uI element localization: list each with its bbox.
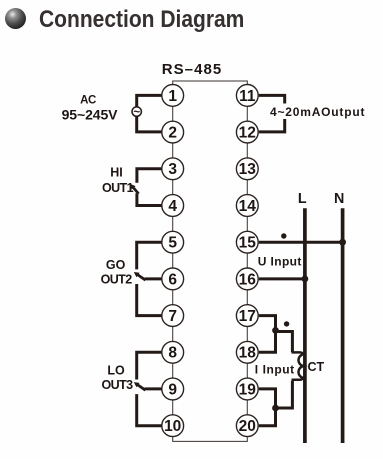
svg-text:11: 11 (239, 88, 256, 105)
wire: relay OUT3 terminal 9 common with blade (145, 387, 162, 390)
wire: relay OUT1 terminal 3 fixed contact (137, 169, 162, 183)
svg-text:6: 6 (168, 271, 177, 288)
terminal 14 (236, 195, 258, 217)
svg-text:N: N (334, 191, 344, 207)
svg-text:LO: LO (107, 363, 125, 377)
white backing for 4~20mAOutput label (269, 104, 368, 120)
svg-text:RS–485: RS–485 (162, 61, 223, 78)
terminal 18 (236, 341, 258, 363)
relay OUT3 blade (136, 384, 146, 391)
junction dot 19/20 (272, 405, 279, 412)
terminal 16 (236, 268, 258, 290)
terminal numbers 1-20 (164, 88, 256, 435)
junction dot 17/18 (272, 327, 279, 334)
terminal 4 (162, 195, 184, 217)
svg-text:OUT2: OUT2 (101, 273, 133, 287)
svg-text:L: L (298, 191, 307, 207)
svg-text:CT: CT (308, 360, 325, 374)
terminal strip outline (thin rail loop) (173, 81, 248, 441)
terminal 2 (162, 121, 184, 143)
relay OUT3 blade arrowhead (134, 382, 140, 387)
terminal 19 (236, 378, 258, 400)
CT winding symbol on L line (292, 352, 304, 379)
terminal 17 (236, 305, 258, 327)
svg-text:12: 12 (239, 125, 256, 142)
svg-text:19: 19 (239, 381, 257, 398)
relay OUT2 blade arrowhead (134, 272, 140, 277)
junction dot on L line (302, 276, 309, 283)
svg-text:8: 8 (168, 345, 177, 362)
wire: branch from 19/20 junction to CT bottom (276, 381, 293, 408)
terminal 15 (236, 231, 258, 253)
wire: relay OUT3 terminal 8 contact (137, 352, 162, 379)
wire: relay OUT2 terminal 5 contact (137, 242, 162, 269)
svg-text:~: ~ (133, 107, 140, 119)
wire: terminal 16 to L line (259, 277, 305, 280)
polarity dot near CT (284, 321, 289, 326)
terminal 10 (162, 415, 184, 437)
wire: terminal 19 strap down to 20 (259, 389, 277, 426)
N power line (341, 208, 345, 443)
svg-text:20: 20 (239, 418, 256, 435)
L power line (303, 208, 307, 443)
svg-text:4~20mAOutput: 4~20mAOutput (270, 105, 365, 119)
wire: terminal 15 to N line (259, 241, 343, 244)
svg-text:14: 14 (239, 198, 257, 215)
svg-text:16: 16 (239, 271, 257, 288)
relay OUT1 blade (132, 186, 138, 194)
svg-text:4: 4 (168, 198, 177, 215)
svg-text:15: 15 (239, 235, 257, 252)
svg-text:1: 1 (168, 88, 177, 105)
svg-text:GO: GO (106, 258, 126, 272)
wire: 4-20mA bracket terminals 11-12 (259, 95, 285, 131)
svg-text:2: 2 (168, 125, 177, 142)
svg-text:I Input: I Input (255, 362, 295, 376)
svg-text:5: 5 (168, 235, 177, 252)
relay OUT2 blade (136, 274, 146, 281)
terminal 12 (236, 121, 258, 143)
wire: terminal 17 strap down to 18 (259, 316, 277, 353)
svg-text:OUT3: OUT3 (102, 378, 134, 392)
wire: relay OUT2 terminal 7 contact (137, 284, 162, 316)
svg-text:U Input: U Input (258, 254, 302, 268)
svg-text:13: 13 (239, 161, 257, 178)
polarity dot above wire 15 (281, 233, 286, 238)
terminal 20 (236, 415, 258, 437)
wire: relay OUT3 terminal 10 contact (137, 394, 162, 426)
svg-text:17: 17 (239, 308, 256, 325)
terminal 6 (162, 268, 184, 290)
svg-text:AC: AC (80, 94, 96, 106)
wire: relay OUT2 terminal 6 common with blade (145, 277, 162, 280)
terminal 11 (236, 85, 258, 107)
terminal 8 (162, 341, 184, 363)
title bullet icon (5, 8, 26, 29)
junction dot on N line (339, 239, 346, 246)
svg-text:10: 10 (164, 418, 181, 435)
terminal 5 (162, 231, 184, 253)
relay OUT1 blade arrowhead (130, 184, 135, 190)
svg-text:95~245V: 95~245V (62, 107, 119, 123)
terminal 9 (162, 378, 184, 400)
svg-text:3: 3 (168, 161, 177, 178)
wire: relay OUT1 terminal 4 with blade (137, 193, 162, 205)
title: Connection Diagram (39, 6, 244, 34)
svg-text:HI: HI (110, 165, 123, 179)
AC source symbol (~) (132, 107, 141, 116)
wire: branch from 17/18 junction to CT top (276, 332, 293, 353)
svg-text:OUT1: OUT1 (102, 181, 134, 195)
terminal 1 (162, 85, 184, 107)
terminal 13 (236, 158, 258, 180)
svg-text:7: 7 (168, 308, 177, 325)
svg-text:18: 18 (239, 345, 257, 362)
terminal 3 (162, 158, 184, 180)
terminal 7 (162, 305, 184, 327)
wire: AC bracket terminals 1-2 (137, 95, 162, 131)
terminal circles 1-10 (162, 85, 258, 437)
svg-text:9: 9 (168, 381, 177, 398)
